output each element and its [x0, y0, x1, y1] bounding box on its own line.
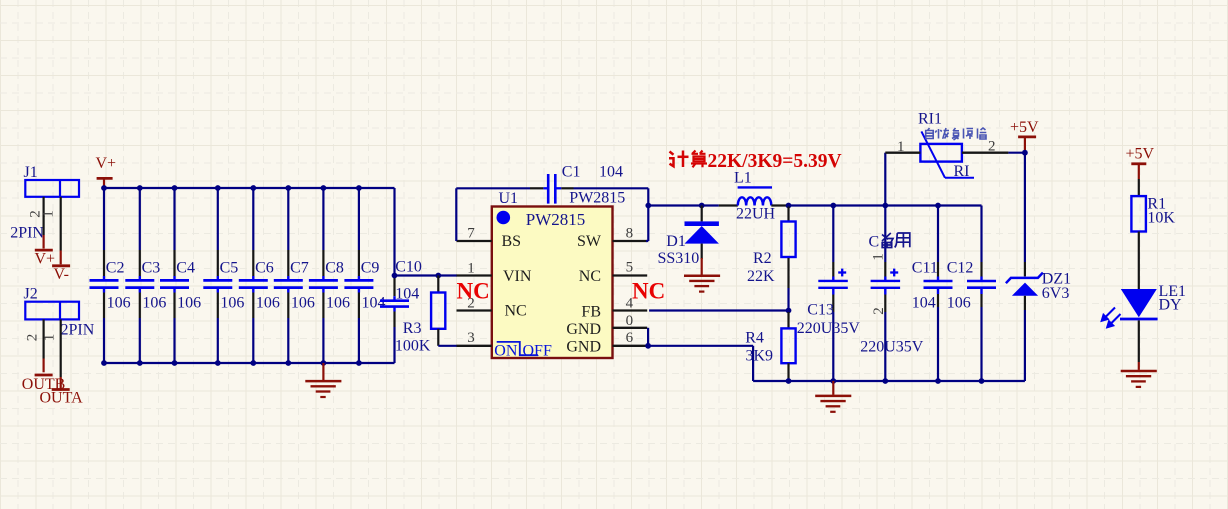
svg-text:1: 1: [871, 253, 887, 261]
junction at R2 top: [786, 203, 792, 209]
C spare pin number 2 (rotated): [871, 307, 887, 315]
svg-text:VIN: VIN: [503, 268, 532, 285]
U1 pin 2 stub: [457, 309, 492, 311]
U1 pin 1 stub: [457, 274, 492, 276]
J1 2PIN value label: [10, 224, 44, 241]
svg-text:104: 104: [395, 285, 419, 302]
svg-text:J2: J2: [24, 286, 38, 303]
power port V+ at J1 pin 2: [35, 250, 56, 267]
C8 designator label: [325, 260, 344, 277]
junction at pin 6: [645, 343, 651, 349]
svg-text:DY: DY: [1159, 297, 1183, 314]
U1 title PW2815 inside: [526, 210, 586, 229]
RI1 pin number 1: [897, 139, 905, 155]
capacitor C3: [125, 188, 154, 363]
wire R1 to LED: [1138, 232, 1140, 290]
svg-text:C8: C8: [325, 260, 344, 277]
wire FB net: [649, 309, 788, 311]
resistor R3: [431, 276, 445, 346]
svg-text:2: 2: [871, 307, 887, 315]
C9 designator label: [361, 260, 380, 277]
junction node VIN at C10: [392, 273, 398, 279]
R1 value label 10K: [1147, 209, 1175, 226]
op-amp U1 PW2815 body: [492, 207, 613, 359]
U1 designator label: [499, 190, 519, 207]
capacitor C13 220U35V (electrolytic): [818, 206, 848, 382]
U1 pin 0 stub: [613, 327, 648, 329]
wire BS bootstrap net: [456, 188, 648, 241]
svg-text:SS310: SS310: [658, 250, 700, 267]
ground symbol below LED: [1121, 362, 1157, 387]
LE1 value label DY: [1159, 297, 1183, 314]
U1 pin 8 stub: [613, 240, 648, 242]
svg-text:C6: C6: [255, 260, 274, 277]
U1 pin number 0: [626, 313, 634, 329]
C13 value label 220U35V: [797, 320, 861, 337]
capacitor C (spare) 220U35V: [871, 153, 901, 381]
junction at C13 bottom: [830, 378, 836, 384]
NC no-connect label left: [457, 278, 490, 303]
junction bottom of C5: [215, 360, 221, 366]
wire bottom rail of capacitor bank: [104, 362, 395, 364]
U1 pin name NC (left): [505, 303, 527, 320]
C spare designator label C备用: [869, 233, 910, 250]
svg-text:GND: GND: [566, 338, 601, 355]
red annotation 计算22K/3K9=5.39V: [669, 151, 842, 173]
C spare value label 220U35V: [860, 339, 924, 356]
svg-text:22K/3K9=5.39V: 22K/3K9=5.39V: [708, 151, 842, 172]
svg-text:104: 104: [599, 163, 623, 180]
capacitor C8: [309, 188, 338, 363]
svg-text:SW: SW: [577, 233, 602, 250]
svg-text:PW2815: PW2815: [526, 210, 586, 229]
C4 value label 106: [177, 294, 201, 311]
junction top of C4: [172, 185, 178, 191]
svg-text:0: 0: [626, 313, 634, 329]
svg-text:6: 6: [626, 330, 634, 346]
power port +5V at fuse: [1010, 119, 1039, 153]
U1 pin 3 stub: [457, 345, 492, 347]
svg-text:6V3: 6V3: [1042, 285, 1070, 302]
U1 pin name SW: [577, 233, 602, 250]
C6 designator label: [255, 260, 274, 277]
svg-text:+5V: +5V: [1010, 119, 1039, 136]
junction at D1 cathode: [699, 203, 705, 209]
resistor R1 10K: [1131, 196, 1146, 231]
J1 pin 1 wire: [60, 197, 62, 264]
J1 pin number 1: [41, 210, 57, 218]
U1 pin name FB: [581, 304, 601, 321]
junction at C11 top: [935, 203, 941, 209]
svg-text:1: 1: [42, 334, 58, 342]
svg-text:C9: C9: [361, 260, 380, 277]
junction SW node: [645, 203, 651, 209]
junction bottom of C3: [137, 360, 143, 366]
capacitor C1 (bootstrap): [548, 174, 555, 204]
power port OUTB at J2 pin 2: [22, 375, 66, 393]
C2 value label 106: [107, 294, 131, 311]
svg-text:OFF: OFF: [523, 343, 552, 360]
C6 value label 106: [256, 294, 280, 311]
U1 pin number 7: [467, 226, 475, 242]
svg-text:V-: V-: [54, 266, 69, 283]
C12 value label 106: [947, 295, 971, 312]
svg-text:1: 1: [41, 210, 57, 218]
C3 designator label: [142, 260, 161, 277]
J2 designator label: [24, 286, 38, 303]
ground symbol below capacitor bank: [305, 363, 341, 397]
junction at C12 bottom: [979, 378, 985, 384]
wire ground bottom rail: [753, 380, 1025, 382]
connector J2: [25, 302, 79, 320]
svg-text:C7: C7: [290, 260, 309, 277]
R3 designator label: [403, 320, 422, 337]
RI1 comment 自恢复保险: [926, 128, 987, 140]
U1 pin name GND (pin 0): [566, 321, 601, 338]
junction at C11 bottom: [935, 378, 941, 384]
svg-text:106: 106: [326, 294, 350, 311]
svg-text:R4: R4: [745, 329, 764, 346]
wire VIN net to pin 1: [395, 274, 458, 276]
wire +5V column down to zener: [1024, 153, 1026, 277]
svg-text:C11: C11: [912, 259, 938, 276]
svg-text:106: 106: [947, 295, 971, 312]
junction top of C2: [101, 185, 107, 191]
svg-text:BS: BS: [502, 233, 522, 250]
U1 pin number 3: [467, 330, 475, 346]
svg-text:V+: V+: [35, 250, 56, 267]
svg-text:2PIN: 2PIN: [10, 224, 44, 241]
svg-text:NC: NC: [505, 303, 527, 320]
svg-text:C2: C2: [106, 260, 125, 277]
junction bottom of C6: [250, 360, 256, 366]
capacitor C4: [160, 188, 189, 363]
junction at spare cap / fuse column: [882, 203, 888, 209]
R3 value label 100K: [395, 338, 431, 355]
svg-text:106: 106: [256, 294, 280, 311]
U1 pin 5 stub: [613, 274, 648, 276]
svg-text:C5: C5: [220, 260, 239, 277]
fuse RI1 (resettable) body: [920, 131, 974, 177]
svg-text:22UH: 22UH: [736, 206, 776, 223]
C10 designator label: [395, 259, 422, 276]
svg-text:C12: C12: [947, 259, 974, 276]
U1 pin name NC (right): [579, 268, 601, 285]
C11 value label 104: [912, 295, 936, 312]
svg-text:C10: C10: [395, 259, 422, 276]
svg-text:V+: V+: [96, 155, 117, 172]
wire L1 to output rail: [771, 204, 981, 206]
capacitor C6: [239, 188, 268, 363]
svg-text:+5V: +5V: [1126, 146, 1155, 163]
svg-text:OUTA: OUTA: [40, 389, 84, 406]
U1 pin number 8: [626, 226, 634, 242]
J1 designator label: [24, 164, 38, 181]
C1 value label 104: [599, 163, 623, 180]
capacitor C2: [90, 188, 119, 363]
U1 pin number 1: [467, 260, 475, 276]
J2 pin number 1: [42, 334, 58, 342]
junction at spare cap bottom: [882, 378, 888, 384]
svg-text:L1: L1: [734, 170, 752, 187]
svg-text:U1: U1: [499, 190, 519, 207]
U1 pin name BS: [502, 233, 522, 250]
svg-text:2: 2: [25, 334, 41, 342]
wire fuse pin 1: [885, 152, 920, 154]
J2 pin 2 wire: [42, 319, 44, 372]
junction bottom of C4: [172, 360, 178, 366]
wire SW node to L1: [648, 204, 738, 206]
U1 pin number 6: [626, 330, 634, 346]
svg-text:J1: J1: [24, 164, 38, 181]
junction FB node at R2/R4: [786, 308, 792, 314]
svg-text:FB: FB: [581, 304, 601, 321]
RI1 designator label: [918, 110, 942, 127]
DZ1 value label 6V3: [1042, 285, 1070, 302]
svg-text:106: 106: [291, 294, 315, 311]
svg-text:2PIN: 2PIN: [61, 322, 95, 339]
ground symbol below C13: [815, 381, 851, 412]
C2 designator label: [106, 260, 125, 277]
U1 pin 4 stub: [613, 309, 648, 311]
J1 pin 2 wire: [42, 197, 44, 249]
junction at R4 bottom: [786, 378, 792, 384]
svg-text:8: 8: [626, 226, 634, 242]
LED LE1 DY: [1102, 289, 1158, 362]
svg-text:3: 3: [467, 330, 475, 346]
power port OUTA at J2 pin 1: [40, 389, 84, 406]
power port V+ feeding capacitor bank: [96, 155, 117, 188]
svg-text:NC: NC: [457, 278, 490, 303]
R1 designator label: [1147, 196, 1166, 213]
J2 2PIN value label: [61, 322, 95, 339]
power port V- at J1 pin 1: [52, 266, 70, 283]
svg-text:5: 5: [626, 259, 634, 275]
svg-text:106: 106: [107, 294, 131, 311]
junction bottom of C8: [321, 360, 327, 366]
wire GND net from pins 0/6: [648, 328, 753, 381]
diode D1 SS310 (schottky to ground): [685, 206, 719, 260]
svg-text:106: 106: [220, 294, 244, 311]
U1 pin number 4: [626, 296, 634, 312]
wire +5V to R1: [1138, 179, 1140, 196]
C5 designator label: [220, 260, 239, 277]
svg-text:22K: 22K: [747, 268, 775, 285]
wire R3 bottom to pin 3: [438, 345, 457, 347]
R4 designator label: [745, 329, 764, 346]
svg-text:3K9: 3K9: [746, 347, 774, 364]
svg-text:R3: R3: [403, 320, 422, 337]
junction at R3 top: [435, 273, 441, 279]
svg-text:104: 104: [912, 295, 936, 312]
wire top rail of capacitor bank: [104, 187, 395, 189]
capacitor C10: [380, 188, 409, 363]
junction bottom of C2: [101, 360, 107, 366]
U1 pin-1 marker dot: [497, 211, 511, 225]
svg-text:106: 106: [177, 294, 201, 311]
svg-text:D1: D1: [666, 233, 686, 250]
svg-text:104: 104: [362, 294, 386, 311]
junction top of C9: [356, 185, 362, 191]
svg-text:NC: NC: [632, 278, 665, 303]
C1 designator label: [562, 163, 581, 180]
R2 designator label: [753, 250, 772, 267]
U1 pin 6 stub: [613, 345, 648, 347]
C5 value label 106: [220, 294, 244, 311]
capacitor C9: [344, 188, 373, 363]
svg-text:10K: 10K: [1147, 209, 1175, 226]
C12 designator label: [947, 259, 974, 276]
J1 pin number 2: [28, 210, 44, 218]
U1 part number label PW2815 (top): [569, 190, 625, 207]
R2 value label 22K: [747, 268, 775, 285]
junction top of C5: [215, 185, 221, 191]
D1 value label SS310: [658, 250, 700, 267]
U1 pin number 2: [467, 296, 475, 312]
C4 designator label: [176, 260, 195, 277]
svg-text:220U35V: 220U35V: [797, 320, 861, 337]
ground symbol at D1 anode: [684, 258, 720, 292]
svg-text:7: 7: [467, 226, 475, 242]
zener diode DZ1 6V3: [1006, 273, 1043, 381]
C7 value label 106: [291, 294, 315, 311]
svg-text:C4: C4: [176, 260, 195, 277]
svg-text:C: C: [869, 233, 880, 250]
capacitor C7: [274, 188, 303, 363]
C11 designator label: [912, 259, 938, 276]
junction top of C3: [137, 185, 143, 191]
C8 value label 106: [326, 294, 350, 311]
U1 pin number 5: [626, 259, 634, 275]
U1 pin name ON/OFF with active-low bar: [494, 342, 552, 360]
junction +5V node: [1022, 150, 1028, 156]
svg-text:PW2815: PW2815: [569, 190, 625, 207]
resistor R4 3K9: [781, 312, 795, 381]
L1 designator label: [734, 170, 752, 187]
RI1 second label RI: [954, 163, 970, 180]
capacitor C12: [967, 206, 996, 382]
resistor R2 22K: [781, 207, 795, 311]
RI1 pin number 2: [988, 139, 996, 155]
R4 value label 3K9: [746, 347, 774, 364]
svg-text:R2: R2: [753, 250, 772, 267]
U1 pin name VIN: [503, 268, 532, 285]
junction bottom of C7: [285, 360, 291, 366]
svg-text:C13: C13: [807, 302, 834, 319]
NC no-connect label right: [632, 278, 665, 303]
C10 value label 104: [395, 285, 419, 302]
svg-text:220U35V: 220U35V: [860, 339, 924, 356]
svg-text:106: 106: [142, 294, 166, 311]
C13 designator label: [807, 302, 834, 319]
C7 designator label: [290, 260, 309, 277]
inductor L1 22UH: [738, 187, 772, 205]
svg-text:RI1: RI1: [918, 110, 942, 127]
capacitor C5: [203, 188, 232, 363]
C spare pin number 1 (rotated): [871, 253, 887, 261]
svg-text:RI: RI: [954, 163, 970, 180]
svg-text:NC: NC: [579, 268, 601, 285]
svg-text:C1: C1: [562, 163, 581, 180]
J2 pin number 2: [25, 334, 41, 342]
capacitor C11: [924, 206, 953, 382]
svg-text:C3: C3: [142, 260, 161, 277]
wire fuse pin 2 to +5V: [962, 152, 1025, 154]
svg-text:100K: 100K: [395, 338, 431, 355]
U1 pin name GND (pin 6): [566, 338, 601, 355]
junction top of C8: [321, 185, 327, 191]
power port +5V at LED branch: [1126, 146, 1155, 179]
svg-text:GND: GND: [566, 321, 601, 338]
junction top of C6: [250, 185, 256, 191]
U1 pin 7 stub: [457, 240, 492, 242]
D1 designator label: [666, 233, 686, 250]
C3 value label 106: [142, 294, 166, 311]
svg-text:ON: ON: [494, 343, 518, 360]
junction top of C7: [285, 185, 291, 191]
junction bottom of C9: [356, 360, 362, 366]
L1 value label 22UH: [736, 206, 776, 223]
LE1 designator label: [1159, 283, 1187, 300]
C9 value label 104: [362, 294, 386, 311]
J2 pin 1 wire: [60, 319, 62, 390]
DZ1 designator label: [1042, 270, 1071, 287]
svg-text:1: 1: [467, 260, 475, 276]
connector J1: [25, 180, 79, 197]
junction at C13 top: [830, 203, 836, 209]
